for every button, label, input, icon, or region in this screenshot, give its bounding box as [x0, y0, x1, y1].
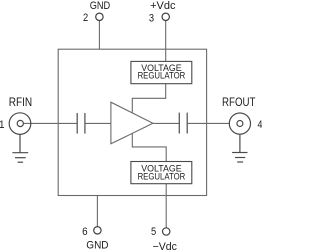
- svg-text:−Vdc: −Vdc: [153, 241, 178, 250]
- svg-text:4: 4: [258, 119, 263, 131]
- svg-text:RFIN: RFIN: [9, 96, 33, 109]
- svg-text:2: 2: [83, 13, 88, 25]
- svg-text:6: 6: [82, 226, 88, 238]
- svg-text:5: 5: [151, 227, 156, 239]
- svg-text:RFOUT: RFOUT: [222, 96, 256, 109]
- svg-text:GND: GND: [86, 239, 109, 250]
- svg-text:+Vdc: +Vdc: [150, 0, 176, 12]
- svg-text:REGULATOR: REGULATOR: [138, 171, 186, 182]
- svg-text:GND: GND: [90, 0, 111, 12]
- svg-text:3: 3: [149, 13, 154, 25]
- svg-text:REGULATOR: REGULATOR: [138, 70, 186, 81]
- svg-text:1: 1: [0, 120, 5, 132]
